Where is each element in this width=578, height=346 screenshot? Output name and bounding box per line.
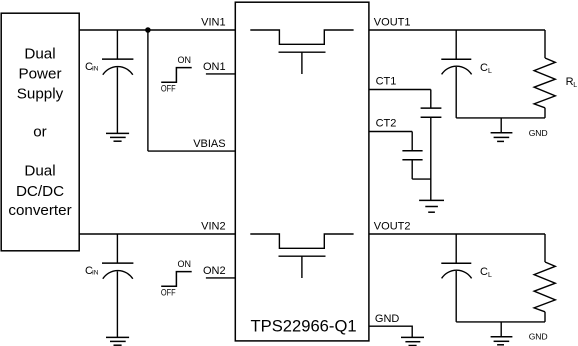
ground (below CIN channel 2): [106, 337, 129, 345]
svg-text:ON: ON: [178, 259, 192, 269]
svg-text:Supply: Supply: [17, 86, 64, 103]
svg-text:or: or: [33, 124, 47, 141]
resistor RL (load, channel 2): [534, 234, 555, 322]
svg-text:Dual: Dual: [24, 162, 55, 179]
on/off step waveform symbol (channel 1): [161, 68, 192, 83]
wire VIN2 net (source to chip): [79, 233, 235, 235]
svg-text:VIN2: VIN2: [201, 220, 225, 232]
svg-text:GND: GND: [529, 128, 548, 138]
svg-text:L: L: [488, 68, 492, 75]
label: source block text: [8, 46, 71, 219]
source block: Dual Power Supply / Dual DC-DC converter: [1, 13, 79, 251]
svg-text:OFF: OFF: [161, 84, 176, 94]
on/off step waveform symbol (channel 2): [161, 272, 192, 287]
wire VOUT1 net: [369, 29, 545, 31]
svg-text:CT2: CT2: [376, 118, 397, 130]
wire VOUT2 net: [369, 233, 545, 235]
ground (chip GND pin): [401, 337, 424, 345]
svg-text:OFF: OFF: [161, 288, 176, 298]
svg-text:IN: IN: [92, 65, 99, 72]
svg-text:C: C: [480, 266, 488, 278]
svg-text:GND: GND: [529, 331, 548, 341]
svg-text:ON: ON: [178, 55, 192, 65]
ground (channel 2 load return): [491, 322, 513, 345]
svg-text:VIN1: VIN1: [201, 16, 225, 28]
wire ON2 pin: [206, 277, 235, 279]
resistor RL (load, channel 1): [534, 30, 555, 118]
transistor Q2 pass FET (inside chip, channel 2): [250, 234, 353, 278]
node junction VIN1/VBIAS: [145, 27, 151, 33]
capacitor CIN (input, channel 1): [102, 30, 133, 133]
svg-text:L: L: [573, 82, 577, 89]
wire bottom of CL/RL loop (channel 2): [456, 321, 545, 323]
svg-text:VOUT2: VOUT2: [374, 220, 411, 232]
svg-text:C: C: [480, 62, 488, 74]
labels: right side pin names: [374, 16, 411, 324]
wire CT1 pin: [369, 89, 431, 91]
wire GND pin: [369, 326, 412, 337]
wire ON1 pin: [206, 73, 235, 75]
capacitor CT1 (timing): [421, 90, 442, 201]
svg-text:converter: converter: [8, 202, 71, 219]
wire VBIAS branch vertical: [147, 30, 149, 151]
ground (below CIN channel 1): [106, 133, 129, 141]
svg-text:L: L: [488, 272, 492, 279]
labels: left side pin names: [193, 16, 225, 277]
ground (channel 1 load return): [491, 118, 513, 141]
svg-text:DC/DC: DC/DC: [16, 183, 64, 200]
svg-text:CT1: CT1: [376, 76, 397, 88]
svg-text:TPS22966-Q1: TPS22966-Q1: [251, 317, 357, 336]
svg-text:Power: Power: [18, 66, 61, 83]
capacitor CL (load, channel 1): [441, 30, 471, 118]
svg-text:ON2: ON2: [203, 265, 226, 277]
wire CT2 pin: [369, 131, 412, 133]
capacitor CIN (input, channel 2): [102, 234, 133, 337]
wire bottom of CL/RL loop (channel 1): [456, 117, 545, 119]
wire VIN1 net (source to chip): [79, 29, 235, 31]
chip U1 TPS22966-Q1 outline: [235, 2, 369, 341]
capacitor CT2 (timing): [402, 132, 430, 180]
svg-text:VOUT1: VOUT1: [374, 16, 411, 28]
svg-text:VBIAS: VBIAS: [193, 138, 225, 150]
svg-text:GND: GND: [375, 313, 400, 325]
capacitor CL (load, channel 2): [441, 234, 471, 322]
svg-text:ON1: ON1: [203, 61, 226, 73]
wire VBIAS pin: [148, 150, 235, 152]
svg-text:IN: IN: [92, 269, 99, 276]
ground (CT capacitors): [419, 200, 444, 212]
transistor Q1 pass FET (inside chip, channel 1): [250, 30, 353, 74]
svg-text:Dual: Dual: [24, 46, 55, 63]
